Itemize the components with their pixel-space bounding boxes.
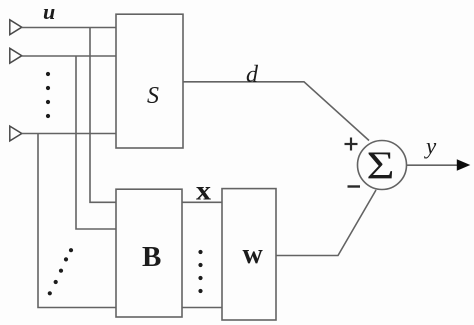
svg-text:x: x xyxy=(196,176,212,206)
wire d: S output to summer xyxy=(183,82,369,141)
wire u3 to S xyxy=(22,133,116,135)
block B xyxy=(116,189,182,317)
svg-text:y: y xyxy=(424,134,437,159)
input ellipsis dots (left, vertical) xyxy=(46,72,50,118)
wire B to w bottom xyxy=(182,307,222,309)
diagonal ellipsis dots (lower-left) xyxy=(48,248,73,295)
input buffer triangle 1 xyxy=(10,20,22,35)
output arrowhead xyxy=(457,159,471,170)
wire tap u3 down to B xyxy=(38,134,116,308)
ellipsis dots between B and w xyxy=(198,250,202,293)
svg-text:w: w xyxy=(243,239,264,270)
plus sign xyxy=(345,138,358,151)
wire x: B to w top xyxy=(182,201,222,203)
block S xyxy=(116,14,183,148)
svg-text:Σ: Σ xyxy=(367,144,395,187)
minus sign xyxy=(348,185,361,187)
block w xyxy=(222,189,276,320)
summer circle U1 xyxy=(358,141,407,190)
wire tap u1 down to B xyxy=(90,28,116,203)
svg-text:d: d xyxy=(246,62,259,88)
input buffer triangle 2 xyxy=(10,48,22,63)
svg-text:S: S xyxy=(147,83,159,109)
svg-text:B: B xyxy=(142,241,161,273)
wire u1 to S xyxy=(22,27,116,29)
svg-text:u: u xyxy=(43,0,55,24)
input buffer triangle 3 xyxy=(10,126,22,141)
wire tap u2 down to B xyxy=(76,56,116,229)
wire u2 to S xyxy=(22,55,116,57)
wire y: summer output xyxy=(407,164,459,166)
wire w output to summer xyxy=(276,190,376,256)
